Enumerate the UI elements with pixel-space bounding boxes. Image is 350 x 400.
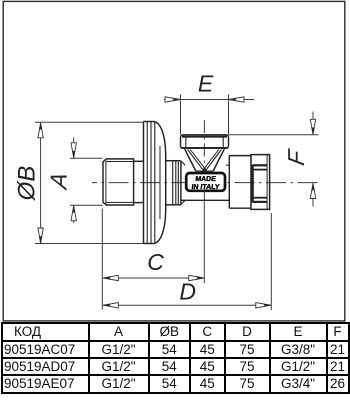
- svg-text:ØB: ØB: [14, 166, 41, 202]
- svg-text:IN ITALY: IN ITALY: [191, 184, 220, 191]
- svg-text:E: E: [198, 71, 214, 97]
- svg-text:D: D: [179, 279, 196, 305]
- svg-text:F: F: [283, 146, 309, 167]
- svg-text:MADE: MADE: [195, 176, 217, 183]
- svg-text:A: A: [46, 170, 72, 192]
- svg-text:C: C: [147, 249, 164, 275]
